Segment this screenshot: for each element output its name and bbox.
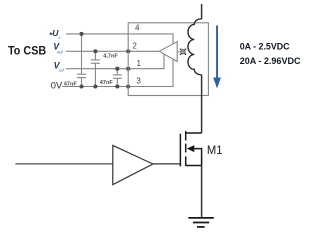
wire +Uc — [66, 34, 173, 44]
transducer box — [128, 23, 208, 96]
hall element link — [177, 51, 180, 53]
buffer driver triangle — [113, 145, 153, 184]
wire Vout — [66, 50, 159, 52]
op-amp triangle — [159, 42, 177, 62]
primary conductor to drain — [201, 75, 203, 133]
svg-text:M1: M1 — [207, 143, 223, 157]
primary coil — [188, 19, 202, 75]
svg-text:2: 2 — [132, 41, 137, 50]
transistor M1 — [180, 131, 201, 167]
capacitor C3 47nF — [113, 69, 122, 87]
svg-text:ref: ref — [59, 68, 65, 73]
primary conductor top — [201, 4, 203, 19]
svg-text:4,7nF: 4,7nF — [103, 53, 118, 59]
wire Vref — [66, 54, 164, 69]
label +Uc — [50, 28, 62, 40]
svg-text:47nF: 47nF — [100, 80, 114, 86]
svg-text:0A - 2.5VDC: 0A - 2.5VDC — [240, 42, 290, 53]
capacitor C1 47nF — [77, 34, 86, 87]
body connection — [191, 149, 202, 166]
svg-text:4: 4 — [135, 24, 140, 33]
svg-text:47nF: 47nF — [64, 82, 78, 88]
wire buffer to gate — [153, 163, 181, 165]
wire 0V — [62, 59, 173, 86]
svg-text:0V: 0V — [51, 81, 63, 91]
svg-text:To CSB: To CSB — [8, 43, 46, 57]
svg-text:out: out — [57, 49, 64, 54]
input wire — [15, 163, 112, 165]
label Vref — [54, 61, 65, 74]
current arrow — [213, 26, 221, 89]
body arrow head — [187, 145, 195, 152]
capacitor C2 4,7nF — [91, 51, 100, 86]
wire source to ground — [201, 166, 203, 218]
label Vout — [53, 42, 63, 55]
svg-text:20A - 2.96VDC: 20A - 2.96VDC — [240, 56, 301, 67]
svg-text:1: 1 — [137, 59, 142, 68]
ground — [188, 218, 214, 227]
hall element symbol — [180, 49, 186, 55]
channel segments — [185, 131, 187, 141]
svg-text:c: c — [59, 35, 62, 40]
drain lead — [186, 132, 202, 134]
source lead — [186, 165, 202, 167]
junction dots — [79, 32, 130, 89]
gate bar — [179, 134, 181, 167]
svg-text:3: 3 — [136, 76, 141, 85]
